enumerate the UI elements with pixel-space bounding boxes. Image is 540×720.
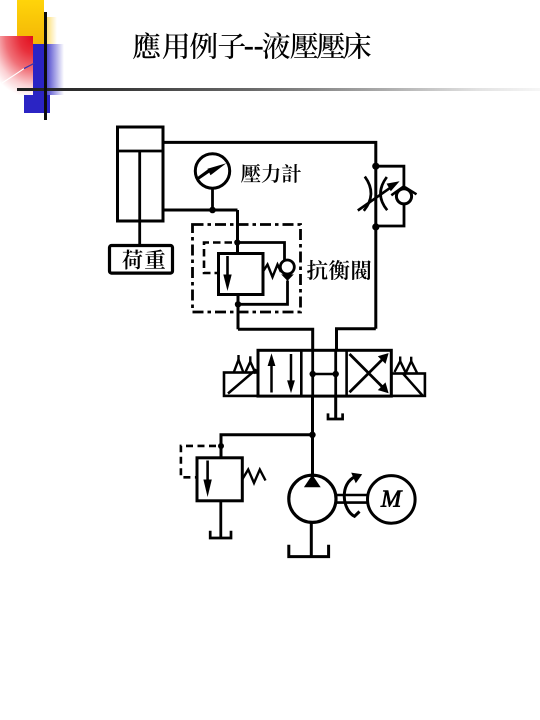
left spring <box>234 360 257 372</box>
check valve ball <box>280 260 294 274</box>
label M (motor) <box>381 491 403 507</box>
node counterbalance outlet <box>235 301 241 307</box>
gauge needle <box>196 163 227 181</box>
throttle arrow <box>358 187 392 211</box>
counterbalance valve body <box>219 254 264 295</box>
pump circle <box>289 475 336 522</box>
wire relief to tank <box>219 501 222 537</box>
relief pilot dashed line <box>181 446 216 477</box>
label 抗衡閥 <box>307 260 371 280</box>
pressure gauge <box>195 154 229 188</box>
relief valve arrow <box>206 461 209 482</box>
wire branch to relief valve <box>221 435 312 458</box>
cylinder piston <box>118 150 164 153</box>
gauge stem wire <box>211 188 214 211</box>
check valve (bypass) wire <box>237 243 284 261</box>
wire counterbalance valve to outlet <box>237 295 240 330</box>
check valve return wire <box>238 281 288 305</box>
wire cylinder bottom port <box>163 209 238 212</box>
pump triangle <box>304 475 321 488</box>
load box <box>110 246 173 274</box>
wire pump suction <box>310 523 313 556</box>
motor circle <box>368 476 416 524</box>
counterbalance enclosure (dash-dot box) <box>193 225 301 313</box>
left position up arrow <box>270 362 273 393</box>
hydraulic cylinder body <box>118 127 164 221</box>
bypass check valve ball <box>396 189 411 204</box>
center position lines <box>311 350 314 396</box>
tank relief <box>210 531 231 538</box>
flow control node outlet <box>372 223 379 230</box>
tank under directional valve <box>328 413 343 419</box>
left solenoid box <box>224 373 258 396</box>
left solenoid diagonal <box>228 370 256 394</box>
right solenoid box <box>391 374 425 396</box>
node center right <box>333 371 339 377</box>
node P junction <box>309 432 316 439</box>
bypass check valve seat <box>391 187 416 196</box>
flow control main wire <box>374 166 377 329</box>
wire cylinder top port to flow control valve <box>163 142 376 166</box>
title 應用例子--液壓壓床 <box>0 0 400 70</box>
wire down to counterbalance valve <box>236 210 239 254</box>
right solenoid diagonal <box>403 373 423 396</box>
label 壓力計 <box>241 164 301 183</box>
wire B-line to directional valve <box>337 329 376 351</box>
piston rod <box>138 151 141 246</box>
directional valve body <box>258 350 391 396</box>
relief valve body <box>197 458 242 501</box>
node relief pilot junction <box>218 443 224 449</box>
bypass return wire <box>376 204 404 227</box>
left position down arrow <box>290 354 293 384</box>
relief spring <box>243 470 266 484</box>
node counterbalance inlet <box>234 239 240 245</box>
node gauge junction <box>209 207 216 214</box>
divider right <box>345 350 348 396</box>
flow control bypass wire <box>376 166 404 189</box>
node center left <box>310 371 316 377</box>
counterbalance valve arrow <box>226 256 229 278</box>
divider left <box>300 350 303 396</box>
wire T-line <box>334 396 337 418</box>
throttle arcs <box>364 177 371 211</box>
rotation arrow <box>344 476 359 516</box>
counterbalance spring <box>263 265 281 278</box>
flow control node inlet <box>372 163 379 170</box>
wire A-line to directional valve <box>238 329 313 350</box>
label 荷重 <box>122 249 165 269</box>
counterbalance pilot line <box>204 243 232 274</box>
wire P-line valve to pump <box>311 396 314 477</box>
right spring <box>395 361 418 373</box>
tank pump <box>289 545 329 557</box>
check valve seat triangle <box>281 274 294 281</box>
right position cross arrows <box>350 358 384 392</box>
drive shaft <box>335 494 369 497</box>
